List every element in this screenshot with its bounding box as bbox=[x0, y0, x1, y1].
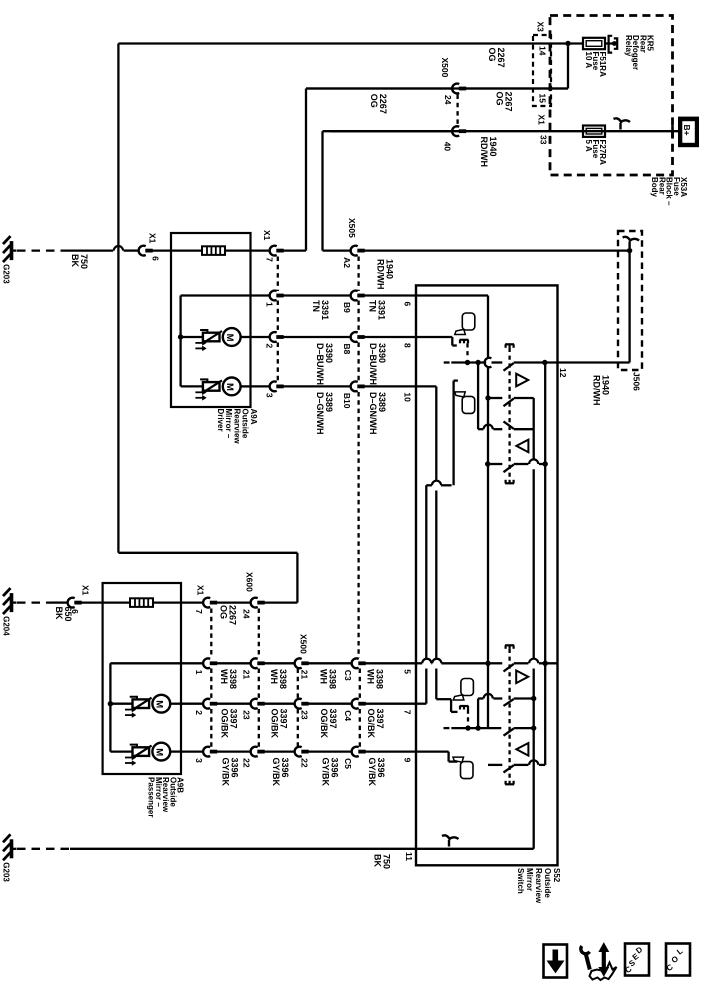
svg-text:TN: TN bbox=[368, 300, 378, 312]
wire bbox=[364, 750, 416, 752]
connector terminal bbox=[452, 126, 459, 136]
svg-text:22: 22 bbox=[300, 758, 310, 768]
wire 750 BK to switch pin 11 bbox=[70, 848, 416, 850]
svg-text:X600: X600 bbox=[245, 572, 255, 592]
svg-text:22: 22 bbox=[242, 758, 252, 768]
legend icon: down arrow bbox=[544, 945, 568, 978]
connector dashed linkage X500 lower bbox=[297, 669, 299, 700]
connector terminal bbox=[203, 747, 210, 757]
legend icon: location bbox=[666, 944, 690, 976]
connector terminal bbox=[251, 598, 258, 608]
wire bbox=[364, 703, 416, 705]
ground G204 bbox=[10, 593, 14, 612]
feed rail continues to passenger section bbox=[487, 398, 489, 663]
svg-text:24: 24 bbox=[443, 95, 453, 105]
connector terminal bbox=[351, 332, 358, 342]
output rail (B+ side) bbox=[544, 363, 546, 664]
svg-text:WH: WH bbox=[269, 669, 279, 684]
svg-text:7: 7 bbox=[403, 710, 413, 715]
hop of pin5 wire handled below bbox=[425, 669, 427, 704]
svg-text:Relay: Relay bbox=[624, 35, 633, 57]
mirror icon driver-select (passenger section) bbox=[461, 679, 474, 696]
wire 2267 OG pin 15 branch bbox=[306, 87, 568, 89]
svg-text:X1: X1 bbox=[537, 115, 547, 126]
heater element (passenger) bbox=[103, 601, 130, 603]
hop of 750 BK over 2267 OG drop bbox=[114, 246, 123, 251]
connector terminal bbox=[270, 291, 277, 301]
wire A9A to X1:2 bbox=[251, 336, 270, 338]
svg-text:D–GN/WH: D–GN/WH bbox=[315, 392, 325, 435]
connector terminal bbox=[352, 658, 359, 668]
contact 8 row bbox=[488, 764, 502, 766]
wire jumper to pin 15 bbox=[567, 44, 569, 89]
svg-text:D–GN/WH: D–GN/WH bbox=[368, 392, 378, 435]
select common line (passenger) bbox=[451, 727, 501, 729]
wire A9B to X1:1 bbox=[181, 662, 203, 664]
svg-text:X500: X500 bbox=[299, 634, 309, 654]
contact 6 bbox=[504, 699, 514, 706]
svg-text:3: 3 bbox=[265, 393, 275, 398]
contact 5 row bbox=[488, 662, 502, 664]
wire A9B to X1:2 bbox=[181, 703, 203, 705]
connector terminal bbox=[68, 598, 75, 608]
feed rail into passenger common bbox=[487, 663, 489, 728]
wire A9A to X1:1 bbox=[251, 294, 270, 296]
contact 6 row from common bbox=[477, 699, 479, 729]
junction linkage bbox=[465, 360, 470, 365]
svg-text:RD/WH: RD/WH bbox=[479, 137, 489, 168]
svg-text:GY/BK: GY/BK bbox=[221, 758, 231, 787]
svg-text:A2: A2 bbox=[342, 257, 352, 268]
wire pin 10 drop to passenger select bbox=[416, 385, 436, 387]
mirror assembly A9B box bbox=[103, 583, 181, 774]
wire bbox=[307, 703, 351, 705]
wire X1:7 to X600:24 bbox=[215, 601, 250, 603]
switch S52 Outside Rearview Mirror Switch box bbox=[416, 285, 558, 865]
junction to contact row c3 bbox=[475, 360, 480, 365]
svg-text:B+: B+ bbox=[682, 125, 692, 136]
actuator vertical motor (passenger) bbox=[110, 750, 132, 752]
select linkage anchor (driver) bbox=[460, 339, 469, 341]
up arrow (driver) bbox=[516, 374, 528, 387]
contact 4 row bbox=[485, 461, 490, 466]
mirror assembly A9A box bbox=[171, 233, 251, 407]
svg-text:D–BU/WH: D–BU/WH bbox=[315, 343, 325, 385]
svg-text:X1: X1 bbox=[262, 230, 272, 241]
svg-text:21: 21 bbox=[300, 670, 310, 680]
wire into A9B bbox=[80, 601, 103, 603]
svg-text:10: 10 bbox=[403, 392, 413, 402]
splice hook on fused feed bbox=[619, 123, 621, 130]
driver common to contact 1 bbox=[492, 361, 503, 363]
wire into A9A bbox=[151, 249, 171, 251]
wire bbox=[215, 662, 250, 664]
contact linkage anchor top (driver) bbox=[505, 343, 514, 345]
connector terminal bbox=[295, 699, 302, 709]
connector terminal bbox=[351, 381, 358, 391]
svg-text:23: 23 bbox=[300, 710, 310, 720]
svg-text:Rearview: Rearview bbox=[534, 868, 543, 904]
motor bbox=[223, 378, 241, 396]
wire A9B to X1:3 bbox=[181, 750, 203, 752]
motor bbox=[152, 743, 170, 761]
svg-text:OG/BK: OG/BK bbox=[319, 709, 329, 739]
svg-text:S52: S52 bbox=[552, 868, 561, 883]
svg-text:G204: G204 bbox=[2, 616, 11, 636]
wire pin 1 row bbox=[181, 294, 251, 296]
mirror icon passenger-select lower bbox=[462, 396, 475, 413]
ground G203 bbox=[10, 241, 14, 260]
junction rail B+ bbox=[542, 360, 547, 365]
svg-text:24: 24 bbox=[242, 609, 252, 619]
wire pin 1 row bbox=[110, 662, 181, 664]
wire 2267 OG drop to passenger mirror bbox=[117, 44, 119, 553]
connector terminal bbox=[203, 658, 210, 668]
connector terminal bbox=[251, 699, 258, 709]
connector X3 (dashed sub-box) bbox=[533, 35, 551, 106]
junction bbox=[565, 41, 570, 46]
junction linkage bbox=[465, 725, 470, 730]
connector terminal bbox=[270, 332, 277, 342]
connector terminal bbox=[270, 246, 277, 256]
legend icon: description bbox=[625, 944, 649, 976]
wire bbox=[282, 294, 351, 296]
mirror icon driver-select upper bbox=[462, 313, 475, 330]
svg-text:GY/BK: GY/BK bbox=[321, 758, 331, 787]
wire 1940 RD/WH from B+ to pin 33 bbox=[323, 130, 606, 132]
select linkage dashed (passenger) bbox=[467, 710, 469, 724]
svg-text:11: 11 bbox=[404, 852, 414, 861]
wire pin 11 ground return bbox=[416, 848, 534, 850]
svg-text:M: M bbox=[154, 748, 165, 756]
svg-text:BK: BK bbox=[70, 254, 80, 267]
connector terminal bbox=[270, 382, 277, 392]
wire 1940 RD/WH to splice J506 bbox=[363, 249, 630, 251]
svg-text:C5: C5 bbox=[343, 758, 353, 769]
svg-text:B10: B10 bbox=[342, 393, 352, 409]
motor bus (driver) bbox=[179, 296, 181, 387]
svg-text:X1: X1 bbox=[196, 585, 206, 596]
connector terminal bbox=[295, 658, 302, 668]
legend icon: repair wrench with arrows bbox=[602, 950, 606, 969]
fuse F27RA 5A bbox=[583, 126, 605, 137]
svg-text:OG: OG bbox=[219, 605, 229, 619]
down arrow (passenger) bbox=[516, 743, 528, 756]
wire pin 7 to select output bbox=[416, 703, 426, 705]
up arrow (passenger) bbox=[516, 671, 528, 684]
wire bbox=[263, 750, 295, 752]
svg-text:8: 8 bbox=[403, 343, 413, 348]
svg-text:Mirror: Mirror bbox=[525, 868, 534, 891]
wire bbox=[307, 662, 351, 664]
wire 2267 OG corner down to driver mirror bbox=[305, 89, 307, 251]
svg-text:6: 6 bbox=[70, 609, 80, 614]
splice hook on ground return bbox=[448, 840, 450, 847]
wire 1940 RD/WH back to switch pin 12 bbox=[558, 361, 630, 363]
connector dashed linkage X1 passenger bbox=[210, 609, 212, 659]
fuse block X53A - Rear Body (dashed box) bbox=[550, 16, 673, 176]
passenger select contact a from pin 10 bbox=[436, 698, 451, 700]
splice J506 (dashed box) bbox=[618, 231, 642, 370]
svg-text:1: 1 bbox=[194, 670, 204, 675]
wire 1940 RD/WH corner down bbox=[321, 131, 323, 250]
actuator horizontal motor (driver) bbox=[181, 336, 203, 338]
wire A9A to X1:7 bbox=[251, 249, 270, 251]
svg-text:5: 5 bbox=[403, 669, 413, 674]
svg-text:OG: OG bbox=[487, 48, 497, 62]
rail B+ passenger pair bbox=[544, 663, 546, 765]
svg-text:X505: X505 bbox=[347, 218, 357, 238]
wire 2267 OG from fuse F51RA to pin 14 bbox=[118, 42, 583, 44]
junction bbox=[108, 701, 113, 706]
select linkage anchor (passenger) bbox=[460, 705, 469, 707]
svg-text:OG/BK: OG/BK bbox=[366, 709, 376, 739]
wire A9A to X1:3 bbox=[251, 385, 270, 387]
contact 2 row bbox=[485, 395, 490, 400]
connector terminal bbox=[351, 246, 358, 256]
svg-text:10 A: 10 A bbox=[584, 52, 593, 69]
svg-text:12: 12 bbox=[558, 368, 568, 378]
svg-text:B8: B8 bbox=[342, 344, 352, 355]
wire bbox=[282, 385, 351, 387]
splice hook J506 bbox=[628, 242, 630, 249]
wire bbox=[363, 336, 416, 338]
connector terminal bbox=[295, 747, 302, 757]
connector terminal bbox=[251, 747, 258, 757]
passenger select contact b from pin 9 bbox=[416, 750, 449, 752]
svg-text:X3: X3 bbox=[536, 22, 546, 33]
select common line (driver) bbox=[451, 361, 486, 363]
feed rail from pin 6 bbox=[487, 296, 489, 358]
svg-text:OG/BK: OG/BK bbox=[220, 709, 230, 739]
connector terminal bbox=[352, 747, 359, 757]
contact 8 bbox=[504, 765, 514, 772]
svg-text:B9: B9 bbox=[342, 302, 352, 313]
svg-text:2: 2 bbox=[194, 710, 204, 715]
svg-text:40: 40 bbox=[443, 142, 453, 152]
wire bbox=[363, 294, 416, 296]
hook crossover at driver common bbox=[485, 358, 492, 367]
wire bbox=[215, 703, 250, 705]
connector dashed linkage X505 bbox=[357, 257, 359, 292]
svg-text:X1: X1 bbox=[81, 585, 91, 596]
svg-text:X500: X500 bbox=[440, 58, 450, 78]
svg-text:15: 15 bbox=[538, 94, 548, 104]
svg-text:Outside: Outside bbox=[543, 868, 552, 898]
wire from select to contact 3 row bbox=[477, 363, 479, 430]
wire 650 BK bbox=[52, 601, 68, 603]
contact 7 bbox=[504, 729, 514, 736]
connector dashed linkage X1 driver bbox=[277, 257, 279, 292]
wire A9B to X1:7 bbox=[181, 601, 203, 603]
motor bbox=[152, 695, 170, 713]
wire bbox=[282, 336, 351, 338]
svg-text:J506: J506 bbox=[632, 372, 642, 391]
svg-text:14: 14 bbox=[538, 46, 548, 56]
svg-text:33: 33 bbox=[539, 135, 549, 145]
svg-text:GY/BK: GY/BK bbox=[271, 758, 281, 787]
svg-text:3: 3 bbox=[194, 758, 204, 763]
motor bbox=[223, 328, 241, 346]
mirror icon passenger-select (passenger section) bbox=[461, 762, 474, 779]
wire bbox=[263, 703, 295, 705]
connector dashed linkage X505 down to C3 bbox=[357, 392, 359, 658]
connector dashed linkage X600 bbox=[258, 609, 260, 659]
wire bbox=[364, 662, 416, 664]
fuse F51RA 10A bbox=[583, 38, 605, 49]
connector dashed linkage X500 bbox=[456, 95, 458, 126]
svg-text:X1: X1 bbox=[148, 233, 158, 244]
output rail (ground side) bbox=[533, 398, 535, 459]
connector terminal bbox=[351, 291, 358, 301]
contact linkage anchor bottom (passenger) bbox=[505, 783, 514, 785]
wire 2267 OG horizontal jog bbox=[118, 552, 297, 554]
connector terminal bbox=[251, 658, 258, 668]
connector terminal bbox=[203, 598, 210, 608]
svg-text:OG: OG bbox=[495, 92, 505, 106]
svg-text:M: M bbox=[224, 334, 235, 342]
junction rail B+ end bbox=[543, 661, 548, 666]
svg-text:G203: G203 bbox=[2, 862, 11, 882]
svg-text:7: 7 bbox=[265, 257, 275, 262]
wire 1940 RD/WH to X500 pin 40 bbox=[330, 130, 452, 132]
svg-text:WH: WH bbox=[319, 669, 329, 684]
junction bbox=[178, 334, 183, 339]
contact 1 (to pin 12) bbox=[504, 363, 514, 371]
svg-text:WH: WH bbox=[219, 669, 229, 684]
wire 750 BK bbox=[68, 249, 113, 251]
wire 2267 OG from X600:24 to corner bbox=[263, 601, 298, 603]
svg-text:Body: Body bbox=[650, 177, 659, 198]
svg-text:C4: C4 bbox=[343, 710, 353, 721]
terminal B+ bbox=[678, 117, 699, 148]
svg-text:M: M bbox=[154, 700, 165, 708]
svg-text:RD/WH: RD/WH bbox=[592, 375, 602, 406]
svg-text:WH: WH bbox=[366, 669, 376, 684]
svg-text:Switch: Switch bbox=[516, 868, 525, 894]
wire X1:7 to corner bbox=[282, 249, 306, 251]
down arrow (driver) bbox=[516, 440, 528, 453]
junction rail B+ bbox=[543, 461, 548, 466]
svg-text:9: 9 bbox=[403, 758, 413, 763]
wire 2267 OG right of X500:24 bbox=[464, 87, 568, 89]
connector terminal bbox=[139, 246, 146, 256]
wire bbox=[307, 750, 351, 752]
wire pin 6 feed bbox=[416, 294, 488, 296]
svg-text:23: 23 bbox=[242, 710, 252, 720]
svg-text:TN: TN bbox=[311, 300, 321, 312]
actuator vertical motor (driver) bbox=[181, 385, 203, 387]
wire bbox=[363, 385, 416, 387]
relay KR5 contact bbox=[605, 42, 614, 44]
connector terminal bbox=[203, 699, 210, 709]
svg-text:1: 1 bbox=[265, 302, 275, 307]
svg-text:GY/BK: GY/BK bbox=[367, 758, 377, 787]
svg-text:C3: C3 bbox=[343, 670, 353, 681]
wire bbox=[263, 662, 295, 664]
svg-text:21: 21 bbox=[242, 670, 252, 680]
wire bbox=[215, 750, 250, 752]
contact linkage anchor bottom (driver) bbox=[505, 482, 514, 484]
wire 650 BK dashed from G204 bbox=[17, 601, 52, 603]
select common arm dash (driver) bbox=[444, 361, 450, 363]
wire pin 5 feed bbox=[416, 662, 422, 664]
ground G203 bbox=[10, 839, 14, 858]
contact linkage anchor top (passenger) bbox=[505, 644, 514, 646]
wire 1940 RD/WH to X505:A2 bbox=[323, 249, 351, 251]
svg-text:6: 6 bbox=[403, 302, 413, 307]
junction rail bbox=[485, 661, 490, 666]
pin tick at fuse block edge bbox=[671, 126, 674, 138]
select common arm dash (passenger) bbox=[444, 727, 450, 729]
wire 750 BK dashed from G203 bbox=[17, 848, 70, 850]
select contact b bracket (driver) bbox=[454, 379, 458, 381]
connector dashed linkage X505 lower bbox=[359, 669, 361, 700]
actuator horizontal motor (passenger) bbox=[110, 703, 132, 705]
motor bus (passenger) bbox=[109, 663, 111, 751]
contact 3 bbox=[504, 421, 514, 428]
svg-text:6: 6 bbox=[151, 256, 161, 261]
wire 1940 RD/WH down from J506 bbox=[628, 251, 630, 363]
wire 750 BK dashed from G203 bbox=[17, 249, 68, 251]
select linkage dashed (driver) bbox=[466, 343, 468, 358]
junction to contact row c6 bbox=[475, 725, 480, 730]
svg-text:BK: BK bbox=[373, 854, 383, 867]
svg-text:OG: OG bbox=[369, 94, 379, 108]
svg-text:OG/BK: OG/BK bbox=[270, 709, 280, 739]
svg-text:M: M bbox=[224, 383, 235, 391]
svg-text:2: 2 bbox=[265, 344, 275, 349]
wire 2267 OG to X500 pin 24 bbox=[306, 87, 452, 89]
wire pin 8 to select contact a bbox=[416, 336, 452, 338]
svg-text:RD/WH: RD/WH bbox=[376, 259, 386, 290]
svg-text:7: 7 bbox=[194, 609, 204, 614]
svg-text:BK: BK bbox=[54, 607, 64, 620]
svg-text:D–BU/WH: D–BU/WH bbox=[368, 343, 378, 385]
heater element (driver) bbox=[171, 249, 202, 251]
contact linkage dashed (passenger) bbox=[508, 649, 510, 779]
junction at J506 bbox=[627, 248, 632, 253]
svg-text:5 A: 5 A bbox=[584, 140, 593, 152]
connector terminal bbox=[452, 84, 459, 94]
select output jog to pin 7 drop bbox=[426, 484, 432, 486]
svg-text:Passenger: Passenger bbox=[147, 777, 156, 817]
svg-text:G203: G203 bbox=[2, 264, 11, 284]
svg-text:Driver: Driver bbox=[216, 409, 225, 432]
connector terminal bbox=[352, 699, 359, 709]
contact linkage dashed (driver) bbox=[508, 348, 510, 478]
